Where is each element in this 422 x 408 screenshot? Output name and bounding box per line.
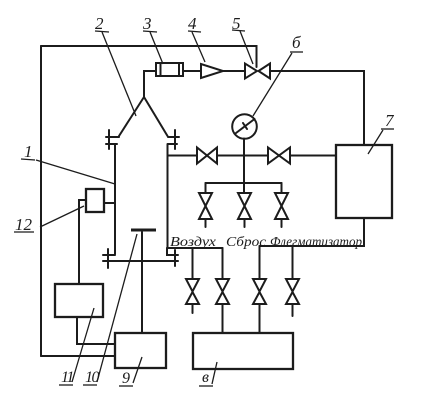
wire gauge row to vessel 7 xyxy=(290,155,336,157)
pressure gauge 6 xyxy=(232,114,257,139)
svg-text:9: 9 xyxy=(122,370,130,387)
pump 9 xyxy=(115,333,166,368)
wire phleg drop C xyxy=(259,246,261,279)
underline 1 xyxy=(21,159,35,160)
underline 10 xyxy=(83,384,97,386)
wire air jog xyxy=(167,248,178,255)
leader 7 xyxy=(368,130,383,154)
svg-text:11: 11 xyxy=(61,369,73,386)
wire bottom return xyxy=(41,355,115,357)
svg-text:Воздух: Воздух xyxy=(170,235,217,250)
wire 4 to 5 xyxy=(223,70,245,72)
leader 3 xyxy=(150,32,163,64)
wire phleg drop D xyxy=(292,246,294,279)
leader 11 xyxy=(72,308,94,382)
leader 5 xyxy=(240,31,253,64)
wire wye inlet xyxy=(144,71,156,97)
wire 12 tap xyxy=(104,202,115,204)
flange right lower xyxy=(174,250,176,266)
wire 11 to 9 xyxy=(77,317,115,344)
svg-text:12: 12 xyxy=(15,215,33,234)
valve C xyxy=(253,279,266,333)
check valve 4 xyxy=(201,64,223,78)
valve vent-mid xyxy=(238,193,251,227)
svg-text:10: 10 xyxy=(85,369,100,386)
underline 3 xyxy=(143,31,157,32)
leader 4 xyxy=(192,32,205,62)
svg-text:4: 4 xyxy=(188,14,197,33)
wire air drop A xyxy=(192,248,194,279)
valve D xyxy=(286,279,299,316)
svg-text:7: 7 xyxy=(385,111,395,130)
svg-text:3: 3 xyxy=(142,14,152,33)
flange left lower xyxy=(103,249,115,268)
svg-text:Флегматизатор: Флегматизатор xyxy=(270,235,362,250)
underline 7 xyxy=(381,128,394,130)
leader 12 xyxy=(40,206,84,227)
wire header drop right xyxy=(281,183,283,193)
wire 12 to 11 xyxy=(79,200,86,284)
wire left border xyxy=(40,46,42,356)
underline 2 xyxy=(95,31,109,32)
valve gauge-left xyxy=(197,148,217,164)
wire gauge row middle xyxy=(217,155,268,157)
valve A xyxy=(186,279,199,313)
pipe 1 left branch xyxy=(114,144,116,254)
flange left upper xyxy=(106,130,119,149)
svg-text:5: 5 xyxy=(232,14,241,33)
valve 5 xyxy=(245,64,270,79)
svg-text:1: 1 xyxy=(24,142,33,161)
underline 4 xyxy=(188,31,201,32)
wire air header xyxy=(167,247,223,249)
underline 11 xyxy=(59,384,73,386)
cylinder block 8 xyxy=(193,333,293,369)
igniter plate 10 xyxy=(131,229,156,232)
wire right branch xyxy=(167,144,169,247)
wire 7 bottom drop xyxy=(260,218,365,246)
leader 9 xyxy=(133,357,142,383)
wire 5 to condenser xyxy=(270,71,364,145)
svg-text:Сброс: Сброс xyxy=(226,235,267,250)
wire gauge stem xyxy=(243,139,245,194)
wire wye left leg xyxy=(119,97,144,136)
valve vent-air xyxy=(199,193,212,227)
sensor 12 xyxy=(86,189,104,212)
flange right upper xyxy=(168,130,179,149)
valve gauge-right xyxy=(268,148,290,164)
vessel 7 xyxy=(336,145,392,218)
unit 11 xyxy=(55,284,103,317)
underline 9 xyxy=(119,385,133,387)
wire igniter stem xyxy=(141,232,143,333)
leader 2 xyxy=(102,32,136,116)
vessel bottom line xyxy=(103,260,178,262)
flame arrester 3 xyxy=(156,63,183,76)
underline 8 xyxy=(199,385,213,387)
leader 10 xyxy=(97,234,137,382)
valve vent-phleg xyxy=(275,193,288,227)
underline 5 xyxy=(232,30,245,31)
leader 8 xyxy=(212,362,217,384)
svg-text:б: б xyxy=(292,33,301,52)
leader 1 xyxy=(36,160,115,184)
wire pipe to gauge row xyxy=(168,155,197,157)
underline 12 xyxy=(14,231,34,233)
wire upper header xyxy=(206,182,282,184)
svg-text:в: в xyxy=(202,369,209,386)
wire air drop B xyxy=(222,248,224,279)
underline 6 xyxy=(290,51,303,53)
wire wye right leg xyxy=(144,97,168,136)
svg-text:2: 2 xyxy=(95,14,104,33)
leader 6 xyxy=(253,53,292,116)
wire header drop left xyxy=(205,183,207,193)
valve B xyxy=(216,279,229,333)
wire 3 to 4 xyxy=(183,70,201,72)
wire top border xyxy=(41,46,257,67)
leader lines xyxy=(14,30,394,386)
